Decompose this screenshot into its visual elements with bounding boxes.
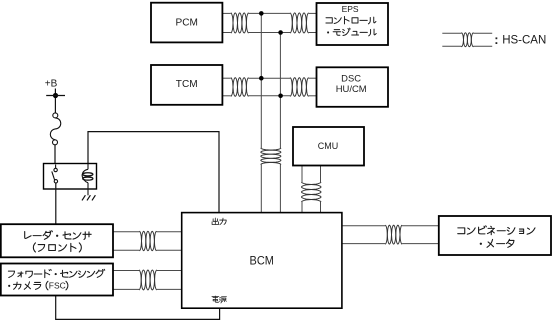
- svg-text:HU/CM: HU/CM: [336, 84, 367, 95]
- svg-text:CMU: CMU: [318, 141, 338, 151]
- svg-text:+B: +B: [45, 78, 58, 89]
- svg-text:BCM: BCM: [250, 256, 274, 268]
- svg-text:FSC: FSC: [49, 280, 66, 290]
- svg-text:EPS: EPS: [342, 4, 359, 14]
- svg-text:DSC: DSC: [341, 74, 361, 84]
- svg-text:HS-CAN: HS-CAN: [502, 35, 546, 47]
- svg-text:TCM: TCM: [176, 79, 198, 90]
- svg-text:PCM: PCM: [176, 18, 198, 29]
